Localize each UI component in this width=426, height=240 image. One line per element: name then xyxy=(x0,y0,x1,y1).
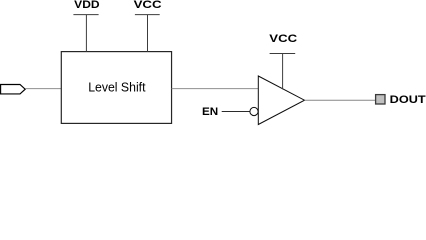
svg-text:DOUT: DOUT xyxy=(390,94,426,106)
svg-text:EN: EN xyxy=(202,106,218,118)
pad DOUT (output terminal) xyxy=(376,95,385,104)
wire: Level Shift to output buffer xyxy=(172,88,259,90)
block U1 Level Shift xyxy=(61,52,171,124)
enable bubble (inverting enable) xyxy=(250,107,258,115)
wire: buffer output to DOUT pad xyxy=(305,99,376,101)
svg-text:VDD: VDD xyxy=(74,0,99,11)
power symbol VCC (Level Shift) xyxy=(135,15,160,52)
output buffer U2 (triangle) xyxy=(258,76,304,125)
svg-text:VCC: VCC xyxy=(269,33,297,45)
wire: EN to enable bubble xyxy=(222,111,250,113)
power symbol VDD xyxy=(73,15,98,52)
wire: input pin to Level Shift block xyxy=(26,88,62,90)
input pin (left arrow connector) xyxy=(1,85,26,94)
power symbol VCC (buffer) xyxy=(270,53,296,89)
svg-text:VCC: VCC xyxy=(134,0,162,11)
svg-text:Level Shift: Level Shift xyxy=(88,79,146,94)
